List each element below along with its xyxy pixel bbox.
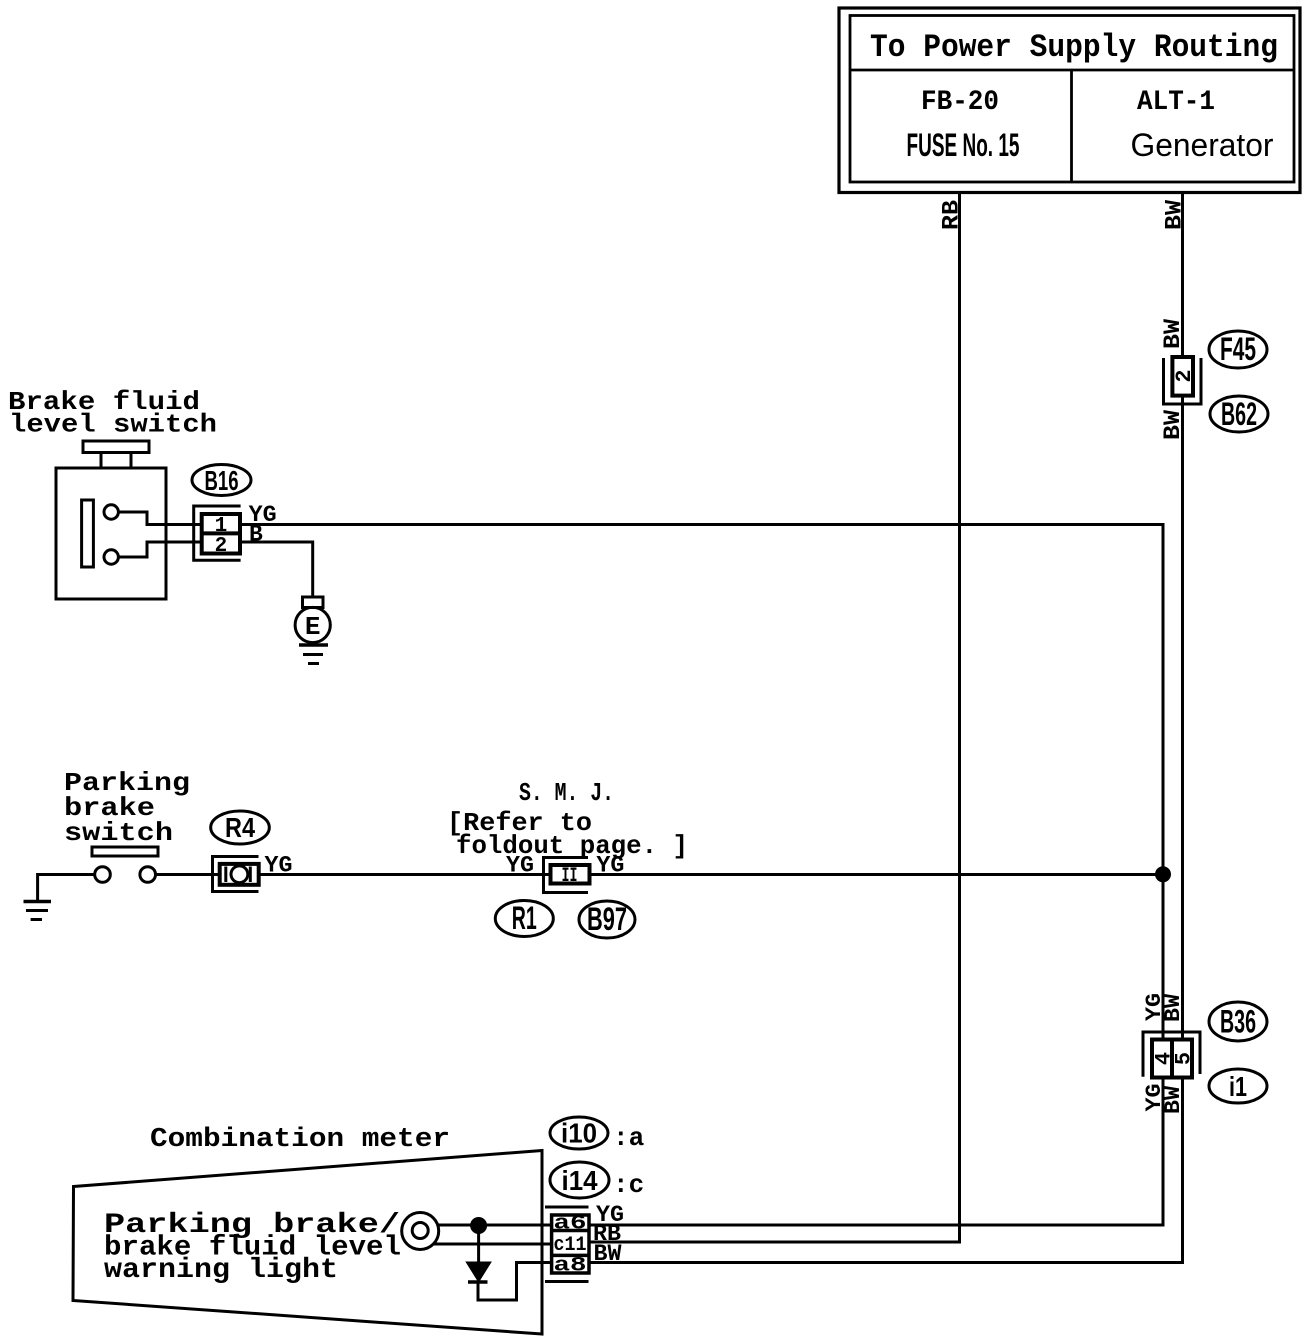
wire lamp bottom [433,1243,552,1246]
svg-text:E: E [305,612,321,642]
oval B36 [1209,1002,1267,1041]
lamp warning light [402,1213,439,1250]
svg-text:B36: B36 [1220,1004,1256,1040]
svg-text:ALT-1: ALT-1 [1137,87,1215,118]
wire R4 to SMJ [259,873,551,876]
ground parking brake [24,875,95,920]
wire lamp top [437,1224,552,1227]
svg-text:a6: a6 [554,1213,587,1236]
svg-text:warning light: warning light [104,1255,338,1286]
svg-text::c: :c [613,1170,644,1200]
switch contacts [95,867,111,883]
wire contact1 to connector [118,512,201,525]
wire BW vertical from generator [1181,193,1184,358]
svg-text:BW: BW [1162,200,1188,230]
junction lamp [472,1219,486,1233]
oval B16 [192,465,251,496]
connector F45/B62 [1164,357,1202,404]
svg-text:RB: RB [939,200,965,230]
svg-text:B97: B97 [587,901,627,937]
wire BW middle [1181,396,1184,1040]
diode D1 [468,1226,552,1301]
oval R1 [495,901,553,937]
svg-text:II: II [562,865,578,888]
oval i14 [550,1162,609,1198]
wire YG long horizontal [240,525,1163,1040]
wire BW to meter [589,1078,1183,1263]
svg-text:B62: B62 [1221,396,1257,432]
svg-text:a8: a8 [554,1255,587,1278]
svg-text:F45: F45 [1220,331,1256,367]
oval i1 [1209,1069,1267,1103]
svg-text:5: 5 [1172,1052,1197,1065]
connector R4 [213,857,259,892]
ground E [295,597,330,664]
svg-text:level switch: level switch [9,410,217,440]
connector SMJ [544,858,590,893]
svg-text:BW: BW [1160,410,1186,440]
junction node [1157,868,1170,881]
svg-text:2: 2 [1172,369,1197,382]
svg-text:i10: i10 [561,1118,597,1149]
svg-text:To Power Supply Routing: To Power Supply Routing [870,29,1278,66]
oval i10 [550,1117,608,1149]
wire RB vertical from fuse box [589,193,960,1243]
oval R4 [211,811,270,844]
connector B36/i1 [1143,1032,1200,1078]
svg-text:2: 2 [215,535,228,558]
oval B62 [1210,396,1268,432]
oval B97 [579,901,635,938]
svg-text:i1: i1 [1229,1071,1247,1102]
svg-text:i14: i14 [562,1165,598,1196]
svg-text:FB-20: FB-20 [921,87,999,118]
wire to R4 [156,873,220,876]
switch contact circles [104,505,118,519]
switch bar [92,847,158,856]
connector B16 [194,506,241,560]
svg-text:switch: switch [64,818,173,848]
svg-text:R4: R4 [225,812,255,843]
brake fluid reservoir [56,441,166,599]
svg-text:BW: BW [1160,319,1186,349]
svg-text:R1: R1 [512,900,537,936]
svg-text:YG: YG [506,853,534,879]
svg-text::a: :a [613,1123,644,1153]
meter connector brackets [545,1207,589,1282]
svg-text:Generator: Generator [1131,127,1274,163]
wire YG to meter [589,1078,1163,1226]
power supply routing box [839,8,1300,193]
wire B to ground [240,542,313,597]
combination meter body [73,1151,542,1335]
wire SMJ to junction [590,873,1164,876]
svg-text:B16: B16 [205,465,239,496]
svg-text:S. M. J.: S. M. J. [519,778,614,808]
oval F45 [1209,331,1267,368]
svg-text:Combination meter: Combination meter [150,1125,450,1155]
svg-text:BW: BW [1161,993,1186,1022]
svg-text:BW: BW [594,1241,622,1267]
svg-text:FUSE No. 15: FUSE No. 15 [907,127,1020,163]
wire contact2 to connector [118,542,201,557]
